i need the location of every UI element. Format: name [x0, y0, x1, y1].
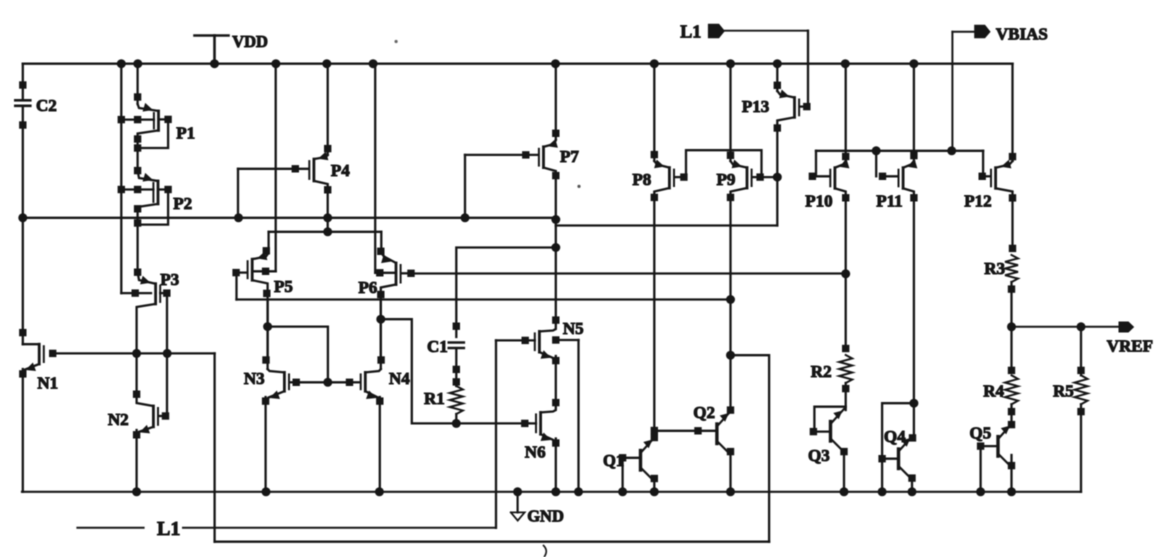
svg-text:C1: C1: [427, 337, 448, 356]
svg-text:Q5: Q5: [970, 424, 992, 443]
svg-text:N5: N5: [563, 319, 584, 338]
svg-text:L1: L1: [680, 21, 701, 41]
svg-text:Q2: Q2: [693, 403, 715, 422]
svg-text:N4: N4: [389, 369, 410, 388]
svg-text:GND: GND: [527, 506, 564, 525]
svg-text:R4: R4: [983, 382, 1004, 401]
svg-text:Q4: Q4: [884, 427, 906, 446]
svg-text:P7: P7: [560, 147, 579, 166]
svg-text:P11: P11: [876, 192, 902, 211]
svg-text:P6: P6: [358, 278, 377, 297]
svg-text:N1: N1: [37, 374, 58, 393]
svg-text:P9: P9: [717, 170, 736, 189]
svg-text:VBIAS: VBIAS: [996, 24, 1048, 43]
svg-text:N2: N2: [108, 410, 129, 429]
svg-text:P8: P8: [632, 170, 651, 189]
svg-text:P5: P5: [274, 277, 293, 296]
svg-text:P12: P12: [964, 192, 991, 211]
svg-text:C2: C2: [36, 96, 57, 115]
svg-text:P4: P4: [331, 161, 350, 180]
svg-text:Q1: Q1: [603, 451, 624, 470]
svg-text:P3: P3: [160, 270, 179, 289]
svg-text:R3: R3: [984, 259, 1005, 278]
svg-text:N3: N3: [244, 369, 265, 388]
svg-text:R2: R2: [811, 362, 832, 381]
svg-text:P2: P2: [173, 194, 192, 213]
svg-text:P1: P1: [176, 124, 195, 143]
svg-text:R5: R5: [1053, 382, 1074, 401]
svg-text:Q3: Q3: [808, 446, 830, 465]
svg-text:VREF: VREF: [1107, 337, 1153, 356]
svg-text:L1: L1: [157, 518, 180, 540]
svg-text:P13: P13: [742, 97, 769, 116]
svg-text:P10: P10: [805, 192, 832, 211]
svg-text:N6: N6: [525, 443, 546, 462]
svg-text:VDD: VDD: [232, 32, 268, 51]
svg-text:R1: R1: [424, 389, 445, 408]
